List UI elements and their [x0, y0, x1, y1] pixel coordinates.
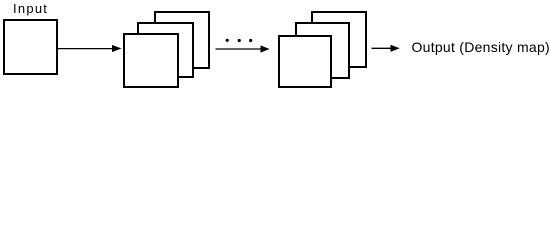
conv block 2 middle square [295, 22, 350, 79]
ellipsis dot 1 [226, 39, 229, 42]
conv block 1 back square [154, 11, 210, 69]
arrow block2 to output [372, 45, 400, 52]
conv block 2 back square [311, 11, 367, 68]
arrow block1 to block2 [216, 45, 270, 52]
conv block 1 middle square [137, 22, 194, 78]
input layer square [3, 19, 58, 75]
conv block 2 front square [278, 35, 333, 88]
arrow input to block1 [58, 45, 122, 52]
ellipsis dot 3 [249, 39, 252, 42]
label Input [13, 2, 48, 15]
conv block 1 front square [123, 33, 179, 88]
label Output (Density map) [412, 41, 550, 54]
ellipsis dot 2 [238, 39, 241, 42]
